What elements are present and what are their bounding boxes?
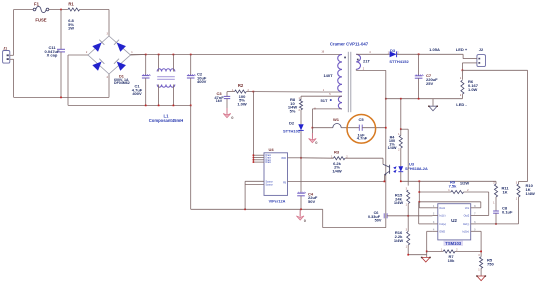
wire neutral line [14,97,109,99]
svg-text:U4: U4 [268,147,274,152]
wire D2 to VDD [300,131,302,194]
wire to J2 pin1 [463,54,477,58]
svg-text:3: 3 [493,181,495,184]
wire Out1 riser [418,181,432,208]
svg-text:FUSE: FUSE [35,18,46,23]
svg-text:1/4W: 1/4W [526,191,536,196]
svg-text:50V: 50V [375,218,382,222]
svg-text:7: 7 [474,212,476,216]
svg-text:1K: 1K [502,189,507,194]
wire Vcc loop [419,202,481,208]
resistor R6 [461,70,479,98]
capacitor C6 [368,211,432,222]
capacitor C11 [45,10,65,98]
bridge diode top-right [114,39,126,51]
bridge diode bottom-left [92,58,104,70]
IC U2 [432,204,476,246]
capacitor C4 [297,191,318,209]
wire bottom link [323,227,386,229]
svg-text:4.7nF: 4.7nF [357,136,368,141]
wire fuse to R1 [49,9,68,11]
wire U4 FB line [288,180,385,182]
svg-text:X cap: X cap [47,53,58,58]
diode D2 [283,120,304,133]
svg-text:51T: 51T [321,98,328,103]
svg-text:1: 1 [493,201,495,204]
svg-text:LED +: LED + [456,47,468,52]
bridge diode top-left [92,39,104,51]
wire In1+ feed [419,202,433,224]
svg-text:7.5k: 7.5k [449,184,458,189]
capacitor C5 [357,117,386,140]
wire D3 to output [397,53,464,55]
svg-text:140T: 140T [323,73,333,78]
resistor R4 [388,135,403,166]
svg-text:1/4W: 1/4W [394,200,404,205]
svg-text:3: 3 [478,254,480,257]
label transformer [330,42,369,47]
svg-text:25V: 25V [426,81,433,86]
aux winding 51T [301,96,342,109]
svg-text:10k: 10k [448,258,455,263]
svg-text:750: 750 [487,261,494,266]
svg-text:5: 5 [474,228,476,232]
resistor R15 [394,190,410,216]
svg-text:2: 2 [460,94,462,97]
svg-text:5: 5 [329,93,331,96]
ground 0 at C4 [296,209,306,223]
bridge diode bottom-right [114,58,126,70]
svg-text:400V: 400V [197,79,207,84]
svg-text:J1: J1 [3,46,7,50]
svg-text:3: 3 [107,32,109,35]
wire secondary bottom riser [385,70,387,227]
svg-text:J2: J2 [479,47,484,52]
label LED+ [456,47,468,52]
svg-text:1: 1 [460,77,462,80]
svg-text:D3: D3 [390,48,396,53]
wire U4 VDD stub [288,157,302,159]
wire primary gnd rail [191,208,323,227]
transformer core [348,52,351,112]
wire U2 gnd [427,231,433,254]
resistor R11 [494,181,509,211]
svg-text:U2: U2 [451,218,457,223]
label LED- [456,102,467,107]
svg-text:5%: 5% [290,108,296,113]
svg-text:Out2: Out2 [464,214,470,218]
svg-text:D2: D2 [289,120,295,125]
svg-text:1.0W: 1.0W [468,87,478,92]
ground secondary [428,99,438,111]
svg-text:STTH4152: STTH4152 [389,59,409,64]
wire J1 pin1 to fuse line [10,10,33,56]
svg-text:1/4W: 1/4W [388,146,397,150]
opto LED [398,166,403,181]
wire DC- riser [190,105,192,209]
svg-text:3: 3 [406,187,408,190]
wire J2 pin2 [462,63,477,71]
secondary winding 21T [356,54,389,70]
svg-text:1.0W: 1.0W [237,101,247,106]
fuse F1 [33,2,49,23]
ground 0 at C3 [223,108,234,120]
svg-text:Out1: Out1 [439,206,445,210]
svg-text:In1(-): In1(-) [439,214,445,218]
optocoupler U3 [383,158,428,182]
ground 0 at aux [309,128,319,146]
pin number labels [86,32,518,271]
svg-text:0.1uF: 0.1uF [502,209,513,214]
svg-text:4: 4 [369,51,371,54]
svg-text:3: 3 [516,181,518,184]
wires U4 drain pins [253,154,264,163]
wires U4 source pins [245,181,264,209]
resistor R5 [480,257,495,276]
svg-text:1/4W: 1/4W [394,238,404,243]
svg-text:Composant45mH: Composant45mH [149,118,183,123]
svg-text:Drain: Drain [266,161,272,164]
svg-text:GND: GND [439,230,445,234]
wire secondary gnd rail [385,98,462,100]
wire drain line [253,91,342,93]
svg-text:W1: W1 [333,117,340,122]
connector J1 [3,46,10,63]
wire Out1 node line [400,180,496,182]
capacitor C3 [214,91,230,114]
svg-text:R2: R2 [238,83,244,88]
svg-text:1.05A: 1.05A [429,47,440,52]
resistor R8 [288,96,303,124]
label 1.05A [429,47,440,52]
wire R16 gnd link [407,251,427,256]
wire J1 pin2 to neutral line [10,59,14,97]
svg-text:In1(+): In1(+) [439,222,446,226]
resistor R2 [227,83,253,106]
svg-text:1: 1 [131,51,133,54]
svg-text:R1: R1 [68,2,74,7]
svg-text:1: 1 [406,204,408,207]
svg-text:1W: 1W [68,26,74,31]
wire bridge plus [131,54,146,57]
svg-text:4: 4 [433,228,435,232]
svg-text:C5: C5 [358,117,364,122]
svg-text:STTH102: STTH102 [283,129,301,134]
svg-text:F1: F1 [34,2,40,7]
svg-text:2: 2 [363,67,365,70]
jumper W1 [312,117,359,128]
primary winding 140T [323,55,345,93]
svg-text:0: 0 [315,140,318,145]
wire bridge minus [68,55,88,105]
svg-text:2: 2 [398,149,400,152]
IC U4 [264,147,288,203]
wire neutral to bridge bottom [108,74,110,97]
wire R1 to bridge top [80,10,109,37]
highlight circle on C5 [347,115,376,144]
svg-text:In2(-): In2(-) [463,222,469,226]
wire drain bus down [252,92,254,162]
svg-text:Source: Source [266,184,274,187]
svg-text:FB: FB [283,183,286,185]
wire aux bottom riser [312,109,314,129]
svg-text:1: 1 [516,198,518,201]
wire In2+ to R5 [476,231,482,256]
svg-text:R3: R3 [334,149,340,154]
resistor R1 [68,2,80,31]
connector J2 [477,47,486,67]
svg-text:400V: 400V [132,91,142,96]
wire feedback to right edge [462,69,527,71]
svg-text:2: 2 [299,109,301,112]
svg-text:2: 2 [433,212,435,216]
svg-text:2: 2 [467,189,469,192]
wire LED- feed [400,98,408,186]
ground at U2 [421,255,431,262]
wire DC- rail [68,105,192,107]
label D1 [114,74,130,85]
svg-text:4: 4 [107,76,109,79]
svg-text:1kV: 1kV [216,99,223,103]
svg-text:21T: 21T [363,58,370,63]
svg-text:In2(+): In2(+) [462,230,469,234]
svg-text:1/4W: 1/4W [332,168,342,173]
svg-text:50V: 50V [308,199,315,204]
svg-text:1/2W: 1/2W [460,180,470,185]
svg-text:1: 1 [478,268,480,271]
ground at R5 [476,275,486,280]
resistor R3 [301,149,383,173]
svg-text:LED -: LED - [456,102,467,107]
svg-text:1: 1 [448,189,450,192]
svg-text:16: 16 [321,51,324,54]
svg-text:0: 0 [231,115,234,120]
svg-text:1: 1 [406,245,408,248]
resistor R7 [427,250,481,263]
inductor L1 [149,55,183,123]
resistor R9 [419,180,488,216]
capacitor C1 [132,55,151,106]
capacitor C7 [415,54,438,98]
svg-text:0: 0 [304,218,307,223]
svg-text:1: 1 [323,89,325,92]
svg-text:Vcc: Vcc [465,206,470,210]
wire DC+ rail [131,54,343,56]
capacitor C2 [187,55,207,106]
svg-text:VDD: VDD [281,158,286,160]
svg-text:Cramer CVP11-047: Cramer CVP11-047 [330,42,369,47]
svg-text:8: 8 [474,204,476,208]
bridge D1 diamond [88,36,131,74]
svg-text:Source: Source [266,181,274,184]
resistor R16 [394,216,410,255]
svg-text:TSM103: TSM103 [445,241,461,246]
wire In2- line [476,223,519,225]
svg-text:2: 2 [86,51,88,54]
diode D3 [389,48,409,64]
svg-text:3: 3 [406,229,408,232]
svg-text:1: 1 [433,204,435,208]
capacitor C8 [493,205,513,224]
resistor R10 [517,70,535,224]
svg-text:DF04M62: DF04M62 [114,81,130,85]
svg-text:VIPer12A: VIPer12A [269,199,286,203]
